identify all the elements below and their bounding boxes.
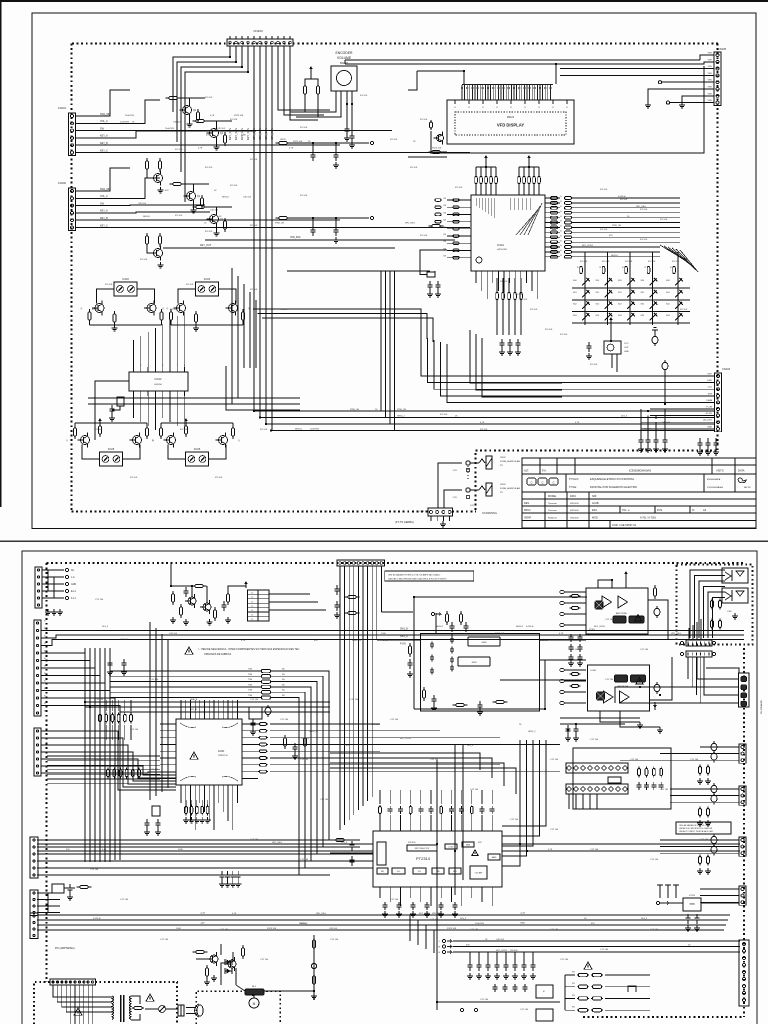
IC201 right long wires bbox=[270, 723, 380, 725]
svg-text:FRONTAL PCB SCHEMATIC ELECTRIC: FRONTAL PCB SCHEMATIC ELECTRIC bbox=[590, 485, 637, 489]
IC101 right pin rows bbox=[545, 197, 560, 199]
amp block IC301 outline bbox=[586, 588, 648, 634]
ground C204 bbox=[121, 669, 127, 675]
header CN202 row2 bbox=[566, 784, 628, 794]
svg-text:R1 10K: R1 10K bbox=[648, 261, 656, 263]
wire Q104 collector bbox=[207, 207, 217, 212]
svg-text:R1 10K: R1 10K bbox=[420, 119, 428, 121]
ground cluster d bbox=[225, 617, 231, 623]
wire encoder to connector bbox=[304, 97, 306, 112]
svg-text:10uF/16V: 10uF/16V bbox=[165, 128, 175, 130]
speaker strip CN303 bbox=[686, 651, 712, 657]
svg-text:C: C bbox=[530, 481, 532, 485]
svg-text:PROJ.: PROJ. bbox=[524, 509, 531, 512]
capacitor C216 bbox=[335, 585, 340, 595]
svg-text:C12 104: C12 104 bbox=[550, 759, 559, 761]
svg-text:1,2V: 1,2V bbox=[453, 470, 458, 472]
resistor R134 bbox=[158, 233, 161, 247]
svg-text:R1 10K: R1 10K bbox=[130, 477, 138, 479]
resistor R222 bbox=[283, 735, 286, 749]
svg-text:(FT-TS GERBA): (FT-TS GERBA) bbox=[395, 520, 414, 524]
terminal T2 bbox=[370, 216, 373, 219]
warning triangle PSU a bbox=[74, 1008, 82, 1015]
wire stub b bbox=[451, 634, 453, 637]
svg-text:R1 10K: R1 10K bbox=[95, 429, 103, 431]
resistor Q102b bbox=[223, 132, 226, 146]
wire IC106 bottom loop bbox=[161, 422, 233, 424]
key matrix column resistors bbox=[580, 267, 583, 274]
resistor R202 bbox=[171, 591, 174, 605]
IC PT2314 body bbox=[373, 831, 502, 887]
svg-text:R1 10K: R1 10K bbox=[170, 309, 178, 311]
svg-text:C45 104: C45 104 bbox=[138, 203, 147, 205]
svg-text:4,7K: 4,7K bbox=[383, 640, 388, 642]
transistor IC105L bbox=[78, 433, 90, 448]
svg-text:VISTO: VISTO bbox=[716, 469, 724, 473]
svg-text:STB: STB bbox=[708, 393, 713, 395]
svg-text:C12 104: C12 104 bbox=[570, 649, 579, 651]
svg-text:F-L1: F-L1 bbox=[71, 598, 76, 600]
connector CN105 bbox=[714, 52, 721, 106]
wire VFD left bbox=[431, 131, 447, 152]
amp mid grounds bbox=[568, 660, 574, 666]
ground C213 bbox=[431, 705, 437, 711]
svg-text:R123 10K: R123 10K bbox=[267, 928, 277, 930]
connector CN308 bbox=[739, 886, 746, 905]
svg-text:KEY_SCN: KEY_SCN bbox=[258, 128, 262, 140]
transistor Q102 bbox=[207, 126, 219, 141]
bottom mid blocks bbox=[536, 985, 553, 998]
svg-text:R1 10K: R1 10K bbox=[300, 195, 308, 197]
amp block IC302 outline bbox=[588, 665, 650, 711]
svg-text:C12 104: C12 104 bbox=[330, 939, 339, 941]
svg-text:1 2: 1 2 bbox=[251, 593, 254, 595]
svg-text:C12 104: C12 104 bbox=[480, 999, 489, 1001]
bottom long bus wires bbox=[37, 914, 730, 916]
capacitor C240 bbox=[686, 914, 691, 924]
capacitor C203 bbox=[108, 659, 113, 669]
capacitor C213 bbox=[432, 695, 437, 705]
svg-text:GRID_2: GRID_2 bbox=[397, 415, 405, 417]
caps with grounds below IC101 bbox=[500, 339, 505, 349]
svg-text:CN02: CN02 bbox=[500, 457, 506, 459]
svg-text:C12 104: C12 104 bbox=[660, 789, 669, 791]
small cluster left-bottom page2 bbox=[52, 884, 64, 893]
header wires down bbox=[568, 794, 570, 809]
capacitor C132 bbox=[436, 281, 441, 291]
page1 dotted segment above title block bbox=[476, 450, 719, 452]
caps above title block bbox=[699, 438, 701, 441]
connector CN103 bbox=[227, 39, 293, 46]
svg-text:KEY_A: KEY_A bbox=[100, 135, 108, 138]
svg-text:LOUD: LOUD bbox=[449, 847, 454, 849]
jack terminal a bbox=[466, 468, 470, 472]
IC101 bottom pins bbox=[475, 271, 477, 283]
ground C226 bbox=[250, 729, 256, 735]
connector CN305 bbox=[739, 744, 746, 763]
ground cluster c bbox=[206, 619, 212, 625]
svg-text:DIG_3: DIG_3 bbox=[467, 745, 474, 747]
svg-text:4,7K: 4,7K bbox=[575, 422, 580, 424]
svg-text:DIG_3: DIG_3 bbox=[460, 918, 467, 920]
transistor Q104 bbox=[207, 212, 219, 227]
wire IC103 right link bbox=[137, 289, 155, 304]
electrolytic C314 bbox=[711, 834, 717, 846]
svg-text:R1 10K: R1 10K bbox=[250, 159, 258, 161]
square pulse symbol bbox=[628, 986, 636, 992]
svg-text:C12 104: C12 104 bbox=[300, 759, 309, 761]
svg-text:ENGENHARIA: ENGENHARIA bbox=[707, 478, 721, 481]
svg-text:M: M bbox=[253, 1002, 256, 1006]
jack P2-FONE-A bbox=[466, 456, 492, 469]
svg-text:R1 10K: R1 10K bbox=[260, 429, 268, 431]
svg-text:DATA: DATA bbox=[706, 399, 712, 402]
svg-text:C12 104: C12 104 bbox=[390, 899, 399, 901]
relay wires bbox=[264, 990, 314, 992]
CNA crosswires bbox=[47, 570, 49, 591]
wire Q103 emitter bbox=[193, 204, 195, 208]
wire below VFD long bbox=[430, 66, 704, 153]
resistor R251 bbox=[312, 973, 315, 987]
CN104 wire p7 bbox=[650, 415, 715, 417]
CNE wires cross bbox=[37, 892, 60, 894]
svg-text:R1 10K: R1 10K bbox=[680, 309, 688, 311]
PT2314 top wire stubs bbox=[379, 790, 381, 804]
ground Q103 bbox=[190, 207, 196, 213]
svg-text:KEY_OUT: KEY_OUT bbox=[200, 244, 212, 247]
svg-text:AC: AC bbox=[71, 569, 75, 572]
svg-text:TUN: TUN bbox=[248, 669, 253, 671]
terminal strip a bbox=[680, 641, 683, 644]
ground cluster a bbox=[170, 617, 176, 623]
svg-text:CN02: CN02 bbox=[500, 484, 506, 486]
bottom mid caps group bbox=[468, 961, 473, 971]
svg-text:Nº: Nº bbox=[692, 508, 695, 512]
svg-text:10uF/16V: 10uF/16V bbox=[475, 923, 485, 925]
svg-text:R123 10K: R123 10K bbox=[432, 147, 442, 149]
capacitor C230 bbox=[350, 841, 355, 851]
mid long wires to amp bbox=[540, 639, 586, 641]
svg-text:R1 10K: R1 10K bbox=[500, 281, 508, 283]
svg-text:1 2: 1 2 bbox=[251, 619, 254, 621]
svg-text:47K: 47K bbox=[466, 944, 470, 946]
wire right vertical bbox=[544, 660, 546, 709]
xtal X101 bbox=[117, 397, 124, 406]
svg-text:R1 10K: R1 10K bbox=[140, 259, 148, 261]
wire long row4 bbox=[92, 219, 340, 221]
CCE logos bbox=[527, 478, 536, 485]
varistor TH1 bbox=[159, 1006, 166, 1013]
transformer core bbox=[120, 995, 122, 1022]
svg-text:USE AS P CONECT TELE DA SAI 4: USE AS P CONECT TELE DA SAI 4 OHM bbox=[679, 830, 713, 833]
svg-text:C12 104: C12 104 bbox=[150, 679, 159, 681]
svg-text:VFD DISPLAY: VFD DISPLAY bbox=[497, 123, 525, 128]
resistor IC1032 bbox=[160, 309, 163, 323]
transistor Q106 bbox=[151, 246, 163, 261]
svg-text:VFD: VFD bbox=[708, 100, 713, 102]
svg-text:VFD: VFD bbox=[708, 53, 713, 55]
svg-text:LB1450: LB1450 bbox=[154, 384, 162, 386]
svg-text:R1 10K: R1 10K bbox=[280, 309, 288, 311]
svg-text:SEG14: SEG14 bbox=[611, 255, 619, 257]
bottom mid wires bbox=[437, 1001, 560, 1003]
svg-text:IC201: IC201 bbox=[218, 750, 225, 753]
svg-text:1 2: 1 2 bbox=[251, 615, 254, 617]
svg-text:GRID_2: GRID_2 bbox=[309, 731, 317, 733]
svg-text:DES.: DES. bbox=[524, 502, 530, 505]
svg-text:R123 10K: R123 10K bbox=[234, 115, 244, 117]
svg-text:IC30928GMA0AS: IC30928GMA0AS bbox=[707, 486, 724, 489]
svg-text:C12 104: C12 104 bbox=[520, 1009, 529, 1011]
svg-text:PSW_ON: PSW_ON bbox=[612, 225, 622, 227]
svg-text:0.022uF: 0.022uF bbox=[618, 196, 626, 198]
ground 7805b bbox=[694, 925, 700, 931]
wire Q101 collector bbox=[180, 98, 190, 103]
svg-text:100K: 100K bbox=[381, 633, 386, 635]
IC IC201 body bbox=[176, 719, 242, 785]
resistor PSU R260 bbox=[132, 1006, 144, 1009]
wires IC102 to bottom circuits bbox=[133, 396, 135, 418]
ground C321 bbox=[573, 735, 579, 741]
motor M1 bbox=[249, 998, 259, 1008]
capacitor C124 bbox=[311, 226, 316, 236]
svg-text:+14V: +14V bbox=[520, 913, 526, 915]
svg-text:IC106: IC106 bbox=[194, 448, 201, 451]
svg-text:R1 10K: R1 10K bbox=[205, 167, 213, 169]
encoder legs bbox=[335, 91, 337, 104]
svg-text:ACAB.: ACAB. bbox=[592, 502, 600, 505]
svg-text:4,7K: 4,7K bbox=[198, 147, 203, 149]
svg-text:R1 10K: R1 10K bbox=[420, 235, 428, 237]
transformer secondary wires bbox=[131, 996, 140, 1004]
transistor IC105R bbox=[130, 433, 142, 448]
svg-text:C12 104: C12 104 bbox=[430, 759, 439, 761]
electrolytic C141 bbox=[652, 334, 658, 346]
svg-text:L-A: L-A bbox=[71, 576, 75, 579]
IC101 diag traces bbox=[516, 212, 536, 235]
IC IC101 body bbox=[471, 195, 545, 271]
svg-text:KEY: KEY bbox=[708, 374, 713, 376]
IC IC102 bottom pins bbox=[133, 391, 135, 396]
svg-text:DIG_3: DIG_3 bbox=[621, 415, 628, 417]
CN104 wire p9 bbox=[641, 428, 715, 430]
svg-text:PT2314: PT2314 bbox=[416, 856, 431, 861]
wire IC105 bottom loop bbox=[75, 422, 147, 424]
connector CN106 bbox=[428, 508, 453, 516]
PSU transistors bbox=[207, 952, 218, 966]
svg-text:SEG14: SEG14 bbox=[222, 196, 230, 198]
ground IC105 bbox=[98, 418, 102, 425]
svg-text:A4: A4 bbox=[703, 508, 707, 512]
page2 left connector CNE bbox=[30, 890, 38, 916]
PT2314 top pins bbox=[379, 815, 381, 831]
capacitor C211 bbox=[464, 622, 469, 632]
svg-text:MODEL: MODEL bbox=[548, 495, 557, 498]
svg-text:IC102: IC102 bbox=[155, 377, 162, 381]
page1 dotted vertical near jacks bbox=[475, 453, 477, 512]
verticals bundle mid-left page2 bbox=[149, 622, 151, 800]
IC101 right second resistors bbox=[565, 197, 572, 200]
svg-text:VOL: VOL bbox=[418, 871, 421, 873]
svg-text:100K: 100K bbox=[176, 928, 181, 930]
warning triangle IC302 bbox=[636, 678, 643, 684]
svg-text:SEG14: SEG14 bbox=[436, 626, 444, 628]
resistor IC1031 bbox=[88, 309, 91, 323]
svg-text:C12 104: C12 104 bbox=[470, 789, 479, 791]
dark block IC301 c bbox=[629, 616, 644, 623]
svg-text:VOLUME: VOLUME bbox=[337, 56, 352, 60]
svg-text:1 2: 1 2 bbox=[251, 601, 254, 603]
svg-text:C12 104: C12 104 bbox=[120, 639, 129, 641]
svg-text:4,7K: 4,7K bbox=[289, 147, 294, 149]
svg-text:IC105: IC105 bbox=[108, 448, 115, 451]
svg-text:47K: 47K bbox=[478, 842, 482, 844]
IC101 right long wires bbox=[572, 197, 680, 199]
ground C203 bbox=[107, 669, 113, 675]
battery sym bbox=[652, 329, 658, 331]
svg-text:TUN: TUN bbox=[248, 695, 253, 697]
transistor Q103 bbox=[184, 189, 196, 204]
page2 dotted frame left bbox=[45, 563, 47, 982]
wire IC102 left out bbox=[95, 381, 129, 440]
svg-text:R1 10K: R1 10K bbox=[672, 261, 680, 263]
PSU wires to transistors bbox=[220, 944, 222, 955]
IC IC101 pin1 dot bbox=[476, 257, 482, 263]
svg-text:KEY_SCN1: KEY_SCN1 bbox=[594, 626, 606, 628]
svg-text:10uF/16V: 10uF/16V bbox=[310, 428, 320, 430]
title block verticals bottom bbox=[544, 492, 546, 528]
jack P2-FONE-B bbox=[466, 483, 492, 496]
wire net P-ON long bbox=[41, 640, 744, 646]
svg-text:SEG14: SEG14 bbox=[516, 626, 524, 628]
capacitor C214 bbox=[478, 701, 483, 711]
CN104 wire p8 bbox=[641, 421, 715, 423]
svg-text:COD. 1.0E.52937.01: COD. 1.0E.52937.01 bbox=[612, 523, 637, 527]
transistor IC104L bbox=[174, 301, 186, 316]
svg-text:KEY_SCN: KEY_SCN bbox=[252, 128, 256, 140]
electrolytic C302 bbox=[654, 682, 660, 694]
junction dots page1 bbox=[229, 56, 666, 432]
svg-text:C12 104: C12 104 bbox=[300, 859, 309, 861]
key switches bbox=[582, 278, 590, 286]
svg-text:MOD.: MOD. bbox=[592, 517, 599, 520]
svg-text:47K: 47K bbox=[314, 640, 318, 642]
dark block IC302 b bbox=[615, 675, 628, 682]
capacitor C115 bbox=[345, 125, 350, 135]
IC101 top rail bbox=[476, 166, 496, 168]
svg-text:OUT AMP: OUT AMP bbox=[475, 872, 483, 875]
page2 bus corner wires bbox=[377, 639, 420, 641]
svg-text:C12 104: C12 104 bbox=[95, 699, 104, 701]
IC201 top pins bbox=[180, 700, 182, 719]
svg-text:KEY_SCN: KEY_SCN bbox=[264, 128, 268, 140]
IR sensor supply bbox=[610, 322, 612, 341]
svg-text:R1 10K: R1 10K bbox=[602, 261, 610, 263]
caps column below IC201 right bbox=[220, 871, 225, 881]
PT2314 inner tall block bbox=[377, 842, 386, 865]
svg-text:GRID_2: GRID_2 bbox=[528, 731, 536, 733]
wire long row3 bbox=[92, 152, 470, 154]
wires right of PT2314 bbox=[502, 740, 520, 866]
svg-text:VFD_SEG: VFD_SEG bbox=[316, 913, 326, 915]
wire net SW_A long bbox=[41, 635, 744, 638]
resistor IC1042 bbox=[241, 309, 244, 323]
electrolytic C301 bbox=[654, 606, 660, 618]
wire IC103 left link bbox=[97, 289, 115, 304]
resistor row left of IC201 bbox=[107, 768, 110, 779]
wire mid row bbox=[289, 142, 369, 144]
transformer primary coil bbox=[112, 996, 114, 1019]
terminal strip c bbox=[680, 652, 683, 655]
transformer primary wires bbox=[53, 985, 112, 997]
wire VFD upper rail bbox=[345, 59, 700, 61]
svg-text:ESQUEMA ELETRICO PCI FRONTAL: ESQUEMA ELETRICO PCI FRONTAL bbox=[590, 477, 635, 481]
svg-text:TMP87CH: TMP87CH bbox=[218, 755, 228, 757]
svg-text:R1 10K: R1 10K bbox=[600, 189, 608, 191]
page2 left connector CNB bbox=[34, 620, 41, 716]
svg-text:GND: GND bbox=[707, 426, 712, 428]
opamp IC A bbox=[468, 637, 500, 646]
wire xtal3 bbox=[112, 406, 120, 410]
page2 vertical bus wires bbox=[339, 566, 341, 830]
svg-text:100K: 100K bbox=[178, 849, 183, 851]
ground IC103 bbox=[111, 325, 117, 331]
svg-text:R1 10K: R1 10K bbox=[560, 334, 568, 336]
CNB short wires bbox=[41, 653, 85, 860]
network left wires bbox=[565, 974, 575, 976]
resistor R223 bbox=[303, 735, 306, 749]
long verticals center page2 bbox=[436, 760, 438, 930]
svg-text:09/10/04: 09/10/04 bbox=[570, 503, 579, 505]
wire net SW_B long bbox=[41, 630, 744, 632]
svg-text:TITLE:: TITLE: bbox=[569, 485, 577, 489]
svg-text:CN6: CN6 bbox=[420, 511, 425, 513]
svg-text:PSW_ON: PSW_ON bbox=[350, 409, 360, 411]
ground IC104 bbox=[193, 325, 199, 331]
CN101 pin wires bbox=[76, 115, 93, 117]
wire stub bbox=[335, 143, 337, 151]
out resistor pairs 1 bbox=[699, 765, 702, 776]
svg-text:C12 104: C12 104 bbox=[95, 599, 104, 601]
IC201 right pins bbox=[242, 723, 258, 725]
resistor R230 bbox=[333, 838, 348, 841]
svg-text:ESC.: ESC. bbox=[592, 509, 598, 512]
amp to strip wires bbox=[688, 628, 690, 640]
svg-text:R1 10K: R1 10K bbox=[625, 261, 633, 263]
7805 out wire bbox=[701, 902, 739, 904]
jack wires dotted bbox=[467, 466, 469, 480]
svg-text:DS101: DS101 bbox=[507, 116, 515, 119]
caps at CN104 bbox=[640, 409, 642, 437]
out conn wires 4 bbox=[700, 888, 739, 890]
PT2314 bottom pins bbox=[379, 887, 381, 898]
ground xtal a bbox=[427, 291, 433, 297]
svg-text:VOL_A: VOL_A bbox=[100, 195, 108, 198]
svg-text:ORIGINAIS DE FABRICA: ORIGINAIS DE FABRICA bbox=[204, 653, 232, 656]
svg-text:KEY_SCN1: KEY_SCN1 bbox=[496, 950, 508, 952]
capacitor C202 bbox=[222, 601, 227, 611]
out resistor pairs 2 bbox=[699, 807, 702, 818]
svg-text:R135: R135 bbox=[280, 139, 286, 141]
transistor Q101 bbox=[180, 103, 192, 118]
svg-text:R1 10K: R1 10K bbox=[520, 299, 528, 301]
svg-text:Q: Q bbox=[81, 308, 83, 310]
ground C121 bbox=[333, 162, 339, 168]
resistor R217 bbox=[345, 611, 360, 614]
svg-text:CN FRONTAL: CN FRONTAL bbox=[482, 512, 498, 515]
svg-text:Q: Q bbox=[66, 440, 68, 442]
svg-text:GND: GND bbox=[520, 923, 525, 925]
